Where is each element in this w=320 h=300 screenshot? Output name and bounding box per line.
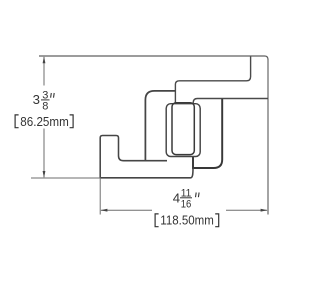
svg-text:3: 3 [33,92,40,107]
horizontal dimension inch mark [196,193,200,198]
mounting post inner capsule [172,103,194,155]
svg-text:86.25mm: 86.25mm [20,114,69,129]
left extension line for horizontal dimension [99,178,101,215]
lower arm bottom edge with end jog [100,168,193,178]
mounting post outer rounded rectangle [166,104,200,157]
svg-text:16: 16 [181,199,192,211]
horizontal dimension line left segment [101,209,152,211]
vertical dimension line lower segment [43,129,45,178]
middle hook top and left edge [145,91,175,161]
vertical dimension arrow up [43,56,46,63]
vertical dimension arrow down [43,171,46,178]
top extension line and hook top edge [39,56,268,60]
horizontal dimension arrow left [100,209,107,212]
upper hook arm underside edge [193,99,268,104]
vertical dimension fraction bar [41,99,50,101]
horizontal dimension line right segment [226,209,267,211]
vertical dimension line upper segment [43,57,45,86]
horizontal dimension fraction bar [180,197,192,199]
vertical dimension mm brackets [15,115,73,128]
horizontal dimension arrow right [261,209,268,212]
svg-text:118.50mm: 118.50mm [160,213,214,228]
middle hook right edge and bottom edge [193,99,222,168]
horizontal dimension mm brackets [155,214,219,227]
bottom extension line left of part [31,177,100,179]
lower hook prong and arm top edge [100,136,167,178]
upper hook inner step edge [175,57,250,104]
hook right edge with extension to dimension line [267,59,269,215]
vertical dimension inch mark [51,93,55,98]
svg-text:8: 8 [42,101,48,113]
svg-text:4: 4 [173,191,180,206]
